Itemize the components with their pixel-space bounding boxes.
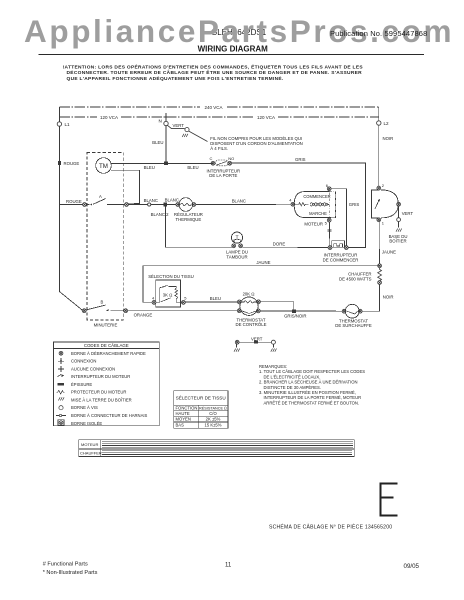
wire: 240 VCA top rail [59, 106, 200, 108]
svg-text:CHAUFFER: CHAUFFER [80, 451, 102, 456]
svg-text:GRIS: GRIS [349, 202, 360, 207]
svg-text:BLANC 2: BLANC 2 [151, 212, 170, 217]
publication number header text [330, 29, 427, 38]
svg-text:DORE: DORE [273, 241, 286, 246]
wire vert to base ground [398, 206, 400, 217]
svg-text:HAUTE: HAUTE [176, 411, 190, 416]
svg-text:FONCTION: FONCTION [176, 405, 198, 410]
svg-text:BORNE À DÉBRANCHEMENT RAPIDE: BORNE À DÉBRANCHEMENT RAPIDE [71, 351, 146, 356]
svg-text:MOTEUR: MOTEUR [304, 221, 323, 226]
splice on rouge [58, 161, 61, 165]
svg-text:DE 4500 WATTS: DE 4500 WATTS [339, 276, 372, 281]
svg-text:ÉPISSURE: ÉPISSURE [71, 382, 92, 387]
codes symbols [56, 351, 66, 425]
svg-text:ORANGE: ORANGE [134, 313, 153, 318]
wire jaune bus [143, 266, 380, 303]
svg-text:3K Ω: 3K Ω [163, 293, 173, 298]
timer box (dashed) [87, 152, 123, 320]
thermostat de surchauffe [342, 309, 346, 313]
wire rouge to timer [59, 204, 82, 206]
wire: 120 VCA right [166, 116, 254, 118]
svg-text:* Non-Illustrated Parts: * Non-Illustrated Parts [43, 570, 98, 576]
timer motor TM [96, 158, 112, 174]
wire jaune centrifugal to junction [378, 222, 380, 264]
model number header text [211, 28, 266, 37]
splice junction N/bleu [164, 162, 168, 166]
svg-text:!ATTENTION: LORS DES OPÉRATION: !ATTENTION: LORS DES OPÉRATIONS D'ENTRET… [63, 62, 364, 70]
splice to lamp [164, 203, 168, 207]
wire: N vertical bleu [165, 126, 167, 164]
svg-text:2K ±5%: 2K ±5% [206, 417, 221, 422]
svg-text:NOIR: NOIR [383, 136, 394, 141]
svg-text:BLANC: BLANC [144, 198, 158, 203]
svg-text:11: 11 [225, 563, 232, 569]
svg-text:SÉLECTION DU TISSU: SÉLECTION DU TISSU [148, 274, 194, 279]
wire: L1 vertical rouge [58, 126, 60, 291]
svg-text:DE CONTRÔLE: DE CONTRÔLE [235, 322, 266, 327]
svg-text:240 VCA: 240 VCA [204, 105, 222, 110]
svg-text:NO: NO [228, 156, 234, 161]
svg-text:ROUGE: ROUGE [66, 199, 82, 204]
node N [165, 113, 167, 121]
svg-text:TM: TM [99, 163, 108, 170]
cycle chart table [79, 440, 355, 457]
svg-text:CONNEXION: CONNEXION [71, 359, 96, 364]
wire blanc chain [128, 204, 176, 206]
svg-text:C/O: C/O [209, 411, 217, 416]
wire TM to N junction (bleu) [111, 162, 213, 164]
svg-text:09/05: 09/05 [404, 563, 420, 570]
svg-text:120 VCA: 120 VCA [257, 115, 275, 120]
vert ground strap [235, 340, 239, 344]
centrifugal switch [377, 186, 381, 190]
svg-text:4: 4 [152, 296, 155, 301]
screw terminal [148, 203, 151, 206]
svg-text:INTERRUPTEUR DU MOTEUR: INTERRUPTEUR DU MOTEUR [71, 374, 130, 379]
svg-text:BAS: BAS [176, 422, 185, 427]
svg-text:BORNE ISOLÉE: BORNE ISOLÉE [71, 421, 102, 426]
splice gris/noir [292, 310, 296, 313]
svg-text:MINUTERIE: MINUTERIE [94, 322, 118, 327]
svg-text:ARRÊTÉ DE THERMOSTAT FERMÉ ET: ARRÊTÉ DE THERMOSTAT FERMÉ ET BOUTON. [264, 400, 360, 405]
svg-text:COMMENCER: COMMENCER [303, 194, 330, 199]
svg-text:A: A [99, 194, 102, 199]
svg-text:BLEU: BLEU [210, 296, 221, 301]
svg-text:N: N [159, 119, 162, 124]
header rule [39, 54, 424, 56]
svg-text:JAUNE: JAUNE [256, 260, 270, 265]
drum lamp [231, 232, 242, 243]
svg-text:JAUNE: JAUNE [382, 249, 396, 254]
codes de cablage table [54, 342, 160, 426]
svg-text:1: 1 [382, 220, 385, 225]
wire bleu selector to thermostat [185, 301, 237, 303]
svg-text:BLEU: BLEU [187, 165, 198, 170]
svg-text:DE COMMENCER: DE COMMENCER [323, 257, 359, 262]
svg-text:GRIS: GRIS [295, 157, 306, 162]
door switch [211, 161, 215, 165]
ground terminal at N [185, 128, 189, 132]
leader line to cord note [189, 131, 208, 141]
centrifugal actuator (dash-dot) [330, 192, 336, 218]
svg-text:NOIR: NOIR [383, 295, 394, 300]
wire from thermostat top right, down to gris/noir [260, 302, 293, 311]
wire gris door switch to motor area [231, 163, 365, 248]
svg-text:PROTECTEUR DU MOTEUR: PROTECTEUR DU MOTEUR [71, 390, 126, 395]
selector internals [156, 288, 160, 303]
svg-text:5: 5 [325, 221, 328, 226]
wire dore lamp to start switch [243, 246, 329, 248]
timer contact A [83, 203, 87, 207]
wire noir L2 down [378, 125, 380, 186]
attention note [63, 62, 364, 82]
minuterie contact B [59, 292, 82, 311]
wire noir thermostat to heater [362, 284, 380, 311]
wire VERT from N to ground terminal [167, 125, 184, 128]
wire blanc to motor 4 [196, 203, 291, 205]
svg-text:GRIS/NOIR: GRIS/NOIR [284, 314, 306, 319]
svg-text:VERT: VERT [251, 336, 263, 341]
svg-text:BLANC: BLANC [165, 198, 179, 203]
svg-text:SÉLECTEUR DE TISSU: SÉLECTEUR DE TISSU [176, 395, 226, 401]
wire TM lower loop to contact A [111, 170, 140, 204]
windings [310, 203, 328, 206]
revision letter E [380, 484, 398, 516]
svg-text:SCHÉMA DE CÂBLAGE N° DE PIÈCE: SCHÉMA DE CÂBLAGE N° DE PIÈCE 134565200 [269, 524, 392, 531]
svg-text:BLEU: BLEU [144, 165, 155, 170]
svg-text:L2: L2 [384, 121, 390, 126]
svg-text:ROUGE: ROUGE [64, 161, 80, 166]
svg-text:MISE À LA TERRE DU BOÎTIER: MISE À LA TERRE DU BOÎTIER [71, 398, 132, 403]
svg-text:BLEU: BLEU [152, 140, 163, 145]
svg-text:À 4 FILS.: À 4 FILS. [210, 146, 228, 151]
svg-text:MOYEN: MOYEN [176, 417, 191, 422]
wire: 120 VCA left [59, 116, 97, 118]
svg-text:# Functional Parts: # Functional Parts [43, 562, 88, 568]
regulateur thermique [176, 203, 180, 207]
remarques notes [259, 364, 365, 405]
svg-text:TAMBOUR: TAMBOUR [226, 254, 247, 259]
wire gris motor 6 to start switch [331, 189, 347, 246]
start switch (interrupteur de commencer) [328, 246, 332, 250]
svg-text:L1: L1 [65, 122, 71, 127]
svg-text:2: 2 [382, 183, 385, 188]
svg-text:C: C [210, 156, 213, 161]
svg-text:AUCUNE CONNEXION: AUCUNE CONNEXION [71, 366, 115, 371]
svg-text:VERT: VERT [173, 123, 185, 128]
svg-text:15 K±5%: 15 K±5% [205, 422, 222, 427]
svg-text:CODES DE CÂBLAGE: CODES DE CÂBLAGE [84, 343, 129, 348]
svg-text:120 VCA: 120 VCA [100, 115, 118, 120]
note: fil non compris [210, 136, 303, 151]
svg-text:WIRING DIAGRAM: WIRING DIAGRAM [198, 44, 269, 53]
svg-text:20K Ω: 20K Ω [243, 292, 255, 297]
start winding resistor [295, 203, 308, 206]
svg-text:DE SURCHAUFFE: DE SURCHAUFFE [335, 323, 372, 328]
svg-text:BORNE À VIS: BORNE À VIS [71, 405, 98, 410]
selecteur de tissu table [174, 391, 228, 428]
wire drop to drum lamp [165, 206, 231, 247]
junction X at jaune/heater [378, 264, 382, 268]
svg-text:RÉSISTANCE Ω: RÉSISTANCE Ω [199, 405, 227, 410]
svg-text:BLANC: BLANC [232, 198, 246, 203]
heater element 4500W [378, 281, 382, 285]
motor [291, 202, 295, 206]
footer [43, 562, 420, 576]
svg-text:BORNE À CONNECTEUR DE HARNAIS: BORNE À CONNECTEUR DE HARNAIS [71, 413, 148, 418]
svg-text:B: B [101, 299, 104, 304]
node L1 [58, 107, 60, 122]
svg-text:5: 5 [184, 296, 187, 301]
thermostat de controle [240, 297, 258, 315]
svg-text:THERMIQUE: THERMIQUE [176, 217, 202, 222]
svg-text:MARCHE: MARCHE [309, 211, 327, 216]
wire orange [128, 310, 238, 312]
svg-text:DE LA PORTE: DE LA PORTE [209, 173, 237, 178]
wire motor 5 to start switch [328, 222, 330, 246]
watermark AppliancePartsPros.com [24, 10, 454, 52]
svg-text:VERT: VERT [402, 211, 414, 216]
svg-text:MOTEUR: MOTEUR [81, 442, 98, 447]
svg-text:T: T [235, 236, 238, 242]
svg-text:BOÎTIER: BOÎTIER [389, 239, 406, 244]
svg-text:4: 4 [289, 197, 292, 202]
node L2 [378, 107, 380, 121]
